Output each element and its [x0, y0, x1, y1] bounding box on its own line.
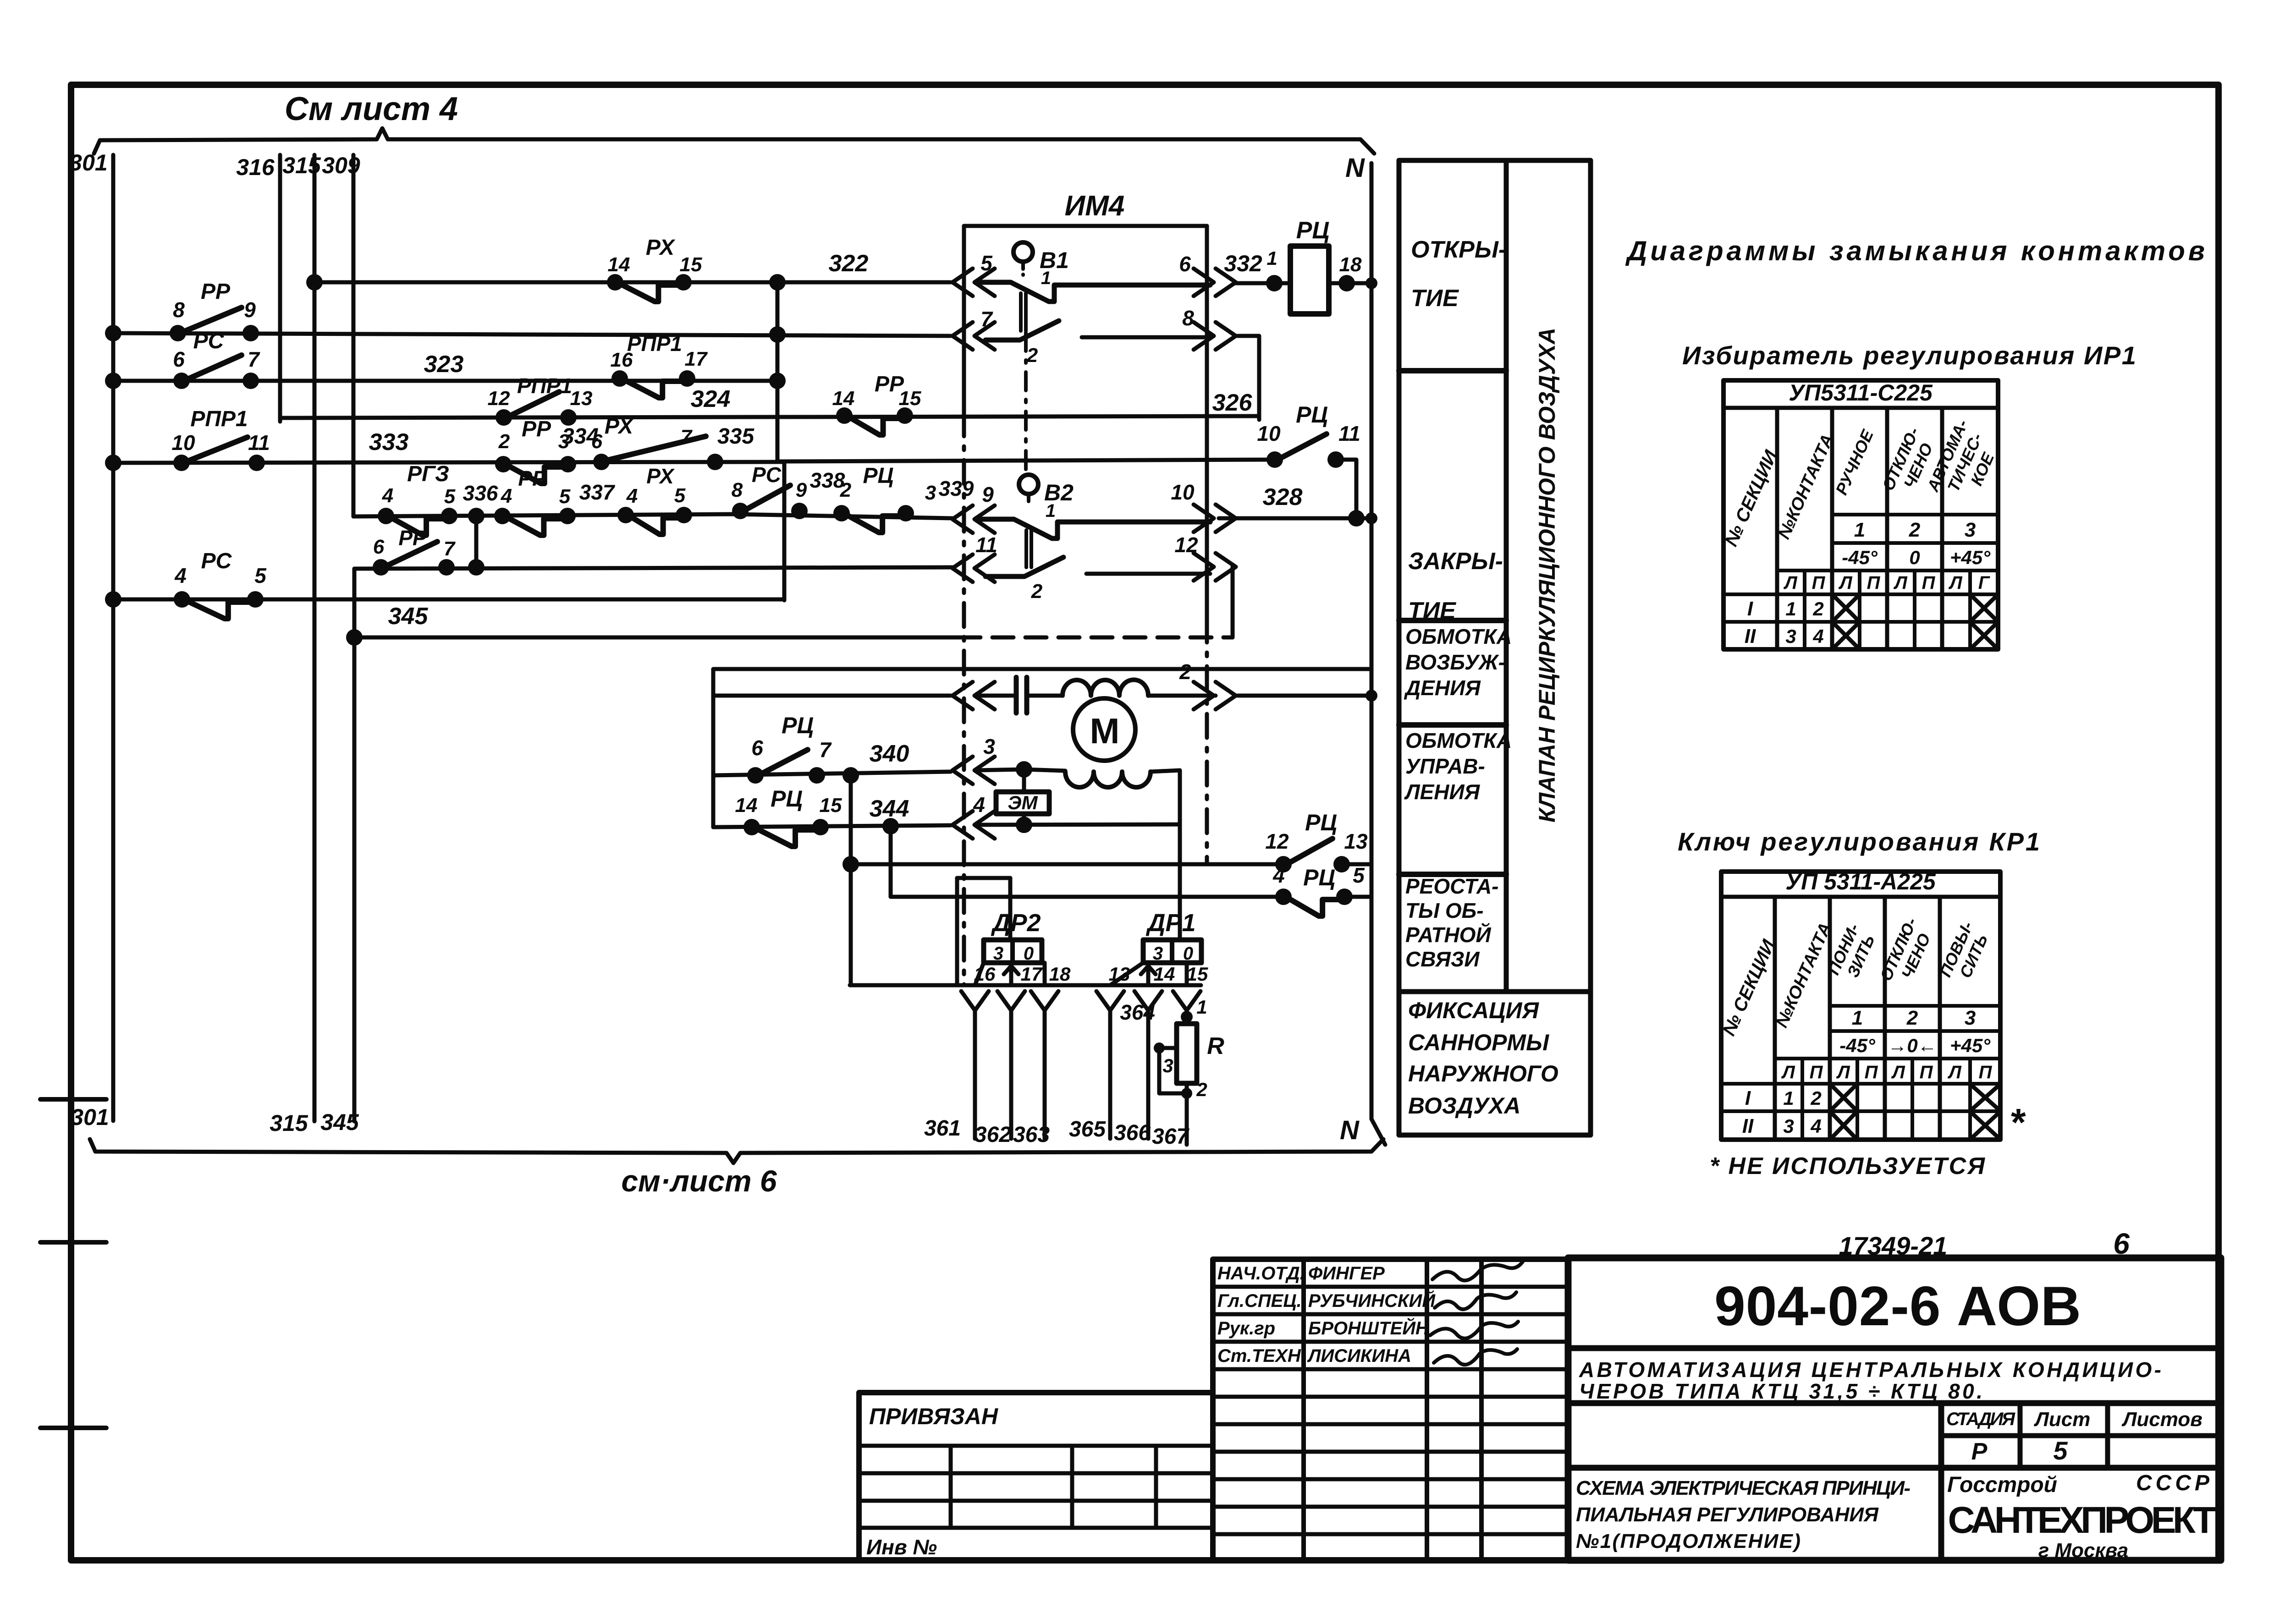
section ОБМОТКА ВОЗБУЖДЕНИЯ	[1399, 625, 1512, 725]
svg-text:5: 5	[674, 484, 686, 507]
see sheet 6 brace (sm list 6)	[90, 1139, 1383, 1198]
contact РХ 4-5	[617, 464, 692, 534]
svg-text:12: 12	[1265, 829, 1289, 853]
svg-text:10: 10	[1171, 480, 1195, 504]
wire 324 from bus 316 through РПР1 12-13 and РР 14-15 to node 326	[280, 386, 1259, 418]
ИМ4 left connector pin 4	[953, 793, 995, 839]
document number 17349-21	[1839, 1231, 1948, 1260]
bus/node 315 vertical	[270, 153, 321, 1136]
key КР1 contact diagram table УП5311-А225	[1719, 869, 2000, 1140]
svg-text:345: 345	[320, 1109, 359, 1135]
svg-text:ВОЗБУЖ-: ВОЗБУЖ-	[1405, 650, 1505, 674]
svg-text:332: 332	[1224, 251, 1262, 276]
svg-text:ТИЕ: ТИЕ	[1411, 285, 1459, 312]
wire 326 vertical from В1 pin 8 down to wire 324	[1212, 336, 1259, 420]
svg-text:2: 2	[1812, 598, 1823, 620]
svg-text:ПИАЛЬНАЯ РЕГУЛИРОВАНИЯ: ПИАЛЬНАЯ РЕГУЛИРОВАНИЯ	[1576, 1503, 1879, 1526]
schema name text	[1576, 1477, 1911, 1553]
resistor R	[1177, 1024, 1224, 1083]
svg-text:3: 3	[1153, 944, 1163, 964]
svg-text:363: 363	[1013, 1123, 1050, 1147]
svg-text:ДР1: ДР1	[1145, 909, 1195, 937]
svg-text:14: 14	[735, 794, 758, 817]
stage/sheet header cells	[1568, 1403, 2221, 1560]
svg-text:РЦ: РЦ	[1296, 217, 1330, 244]
svg-text:4: 4	[1272, 863, 1285, 887]
svg-text:РР: РР	[518, 466, 546, 490]
svg-text:Л: Л	[1836, 1062, 1850, 1082]
wire row to contact РЦ 12-13 and bus N	[851, 862, 1371, 867]
svg-text:Л: Л	[1783, 573, 1798, 593]
svg-text:3: 3	[1965, 1007, 1976, 1029]
svg-text:ОБМОТКА: ОБМОТКА	[1405, 729, 1512, 752]
svg-text:П: П	[1867, 573, 1881, 593]
svg-text:ТЫ ОБ-: ТЫ ОБ-	[1405, 899, 1484, 922]
svg-text:7: 7	[819, 738, 832, 762]
svg-text:*: *	[2010, 1101, 2026, 1144]
svg-text:ЭМ: ЭМ	[1008, 792, 1038, 813]
control winding (ОУ)	[1024, 769, 1180, 825]
contact РЦ 14-15	[735, 786, 842, 846]
asterisk mark near КР1 table	[2010, 1101, 2026, 1144]
svg-text:РХ: РХ	[646, 464, 675, 488]
connector row of feedback circuits	[850, 983, 1201, 988]
svg-text:КЛАПАН РЕЦИРКУЛЯЦИОННОГО ВОЗ: КЛАПАН РЕЦИРКУЛЯЦИОННОГО ВОЗДУХА	[1534, 328, 1560, 823]
contact РХ 14-15 on wire 322	[607, 236, 702, 302]
svg-text:№1(ПРОДОЛЖЕНИЕ): №1(ПРОДОЛЖЕНИЕ)	[1576, 1530, 1800, 1553]
svg-text:340: 340	[870, 741, 909, 767]
svg-text:16: 16	[974, 963, 996, 985]
svg-text:П: П	[1920, 1062, 1933, 1082]
svg-text:15: 15	[820, 794, 842, 817]
svg-text:1: 1	[1196, 996, 1207, 1018]
actuator block ИМ4 outline	[964, 190, 1207, 985]
svg-text:4: 4	[501, 485, 512, 507]
svg-text:326: 326	[1212, 390, 1253, 416]
contact РР 2-3	[495, 417, 599, 483]
svg-text:* НЕ ИСПОЛЬЗУЕТСЯ: * НЕ ИСПОЛЬЗУЕТСЯ	[1710, 1153, 1985, 1180]
svg-text:904-02-6 АОВ: 904-02-6 АОВ	[1714, 1275, 2081, 1337]
svg-text:4: 4	[1810, 1115, 1821, 1137]
svg-text:-45°: -45°	[1839, 1035, 1876, 1056]
ИМ4 left connector pin 9	[953, 483, 995, 533]
svg-text:Л: Л	[1893, 573, 1908, 593]
svg-text:4: 4	[174, 564, 187, 587]
wire row from bus 309: 336/337/338/339 chain to В2 pin 9	[353, 514, 953, 518]
svg-text:ОТКРЫ-: ОТКРЫ-	[1411, 236, 1506, 263]
svg-text:6: 6	[751, 736, 763, 760]
svg-text:НАЧ.ОТД.: НАЧ.ОТД.	[1217, 1263, 1305, 1284]
svg-text:РР: РР	[201, 280, 231, 304]
electromagnet ЭМ	[996, 769, 1049, 833]
svg-text:ОБМОТКА: ОБМОТКА	[1405, 625, 1512, 648]
contact РПР1 10-11	[171, 407, 270, 471]
position sensor ДР1	[1109, 909, 1208, 985]
svg-text:ИМ4: ИМ4	[1065, 190, 1125, 222]
svg-text:333: 333	[369, 429, 409, 455]
contact РР 6-7 bypass branch to В2 pin 11	[354, 508, 953, 576]
ИМ4 left connector pin 5	[953, 251, 995, 296]
svg-text:4: 4	[1812, 625, 1823, 647]
svg-text:Г: Г	[1978, 573, 1991, 593]
ИМ4 left connector pin 7	[953, 307, 995, 350]
svg-text:315: 315	[270, 1110, 308, 1136]
svg-text:5: 5	[2053, 1436, 2068, 1465]
svg-text:11: 11	[975, 533, 997, 557]
svg-text:7: 7	[444, 538, 456, 560]
svg-text:328: 328	[1263, 484, 1303, 510]
svg-text:3: 3	[1785, 625, 1796, 647]
bus/node N (right vertical of ladder)	[1340, 153, 1385, 1145]
svg-text:УПРАВ-: УПРАВ-	[1405, 754, 1485, 778]
limit switch В1 (pins 1-2)	[975, 242, 1210, 367]
svg-text:3: 3	[1965, 519, 1976, 541]
ИМ4 right connector pin 8	[1182, 306, 1236, 350]
heading Диаграммы замыкания контактов	[1625, 236, 2205, 266]
svg-text:УП5311-С225: УП5311-С225	[1789, 380, 1933, 406]
svg-text:14: 14	[608, 253, 630, 276]
svg-text:УП 5311-А225: УП 5311-А225	[1785, 869, 1936, 894]
svg-text:П: П	[1922, 573, 1936, 593]
svg-text:367: 367	[1152, 1125, 1189, 1149]
svg-text:ДЕНИЯ: ДЕНИЯ	[1404, 676, 1481, 700]
svg-text:2: 2	[1196, 1079, 1207, 1100]
svg-text:3: 3	[983, 735, 995, 758]
contact РР 14-15	[832, 372, 921, 435]
svg-text:РС: РС	[752, 463, 782, 487]
svg-text:11: 11	[1338, 422, 1360, 445]
contact РЦ 12-13	[1265, 810, 1368, 872]
svg-text:365: 365	[1069, 1117, 1106, 1141]
svg-text:П: П	[1979, 1062, 1993, 1082]
contact РС 4-5	[174, 549, 267, 619]
svg-text:N: N	[1340, 1115, 1360, 1145]
heading Избиратель регулирования ИР1	[1682, 341, 2136, 370]
svg-text:364: 364	[1120, 1000, 1155, 1024]
project title text	[1568, 1358, 2221, 1403]
wire 344 row with contact РЦ 14-15 to pin 4	[713, 796, 1180, 834]
svg-text:12: 12	[1174, 533, 1198, 557]
wire link from motor section bus to bus N	[713, 669, 1371, 827]
svg-text:8: 8	[173, 298, 185, 322]
svg-text:РПР1: РПР1	[190, 407, 248, 431]
svg-text:1: 1	[1854, 519, 1865, 541]
ИМ4 right connector pin 6	[1179, 252, 1236, 296]
section ОБМОТКА УПРАВЛЕНИЯ	[1399, 729, 1512, 874]
svg-text:366: 366	[1114, 1121, 1151, 1145]
svg-text:РЦ: РЦ	[1303, 865, 1335, 890]
svg-text:315: 315	[282, 153, 321, 178]
svg-text:2: 2	[1810, 1087, 1821, 1109]
svg-text:РЦ: РЦ	[782, 713, 814, 738]
section ЗАКРЫТИЕ	[1399, 548, 1506, 624]
svg-text:Л: Л	[1948, 573, 1963, 593]
ИМ4 right connector pin 12	[1174, 533, 1236, 581]
svg-text:РР: РР	[522, 417, 551, 441]
svg-text:Л: Л	[1947, 1062, 1962, 1082]
svg-text:7: 7	[980, 307, 993, 331]
svg-text:15: 15	[1187, 963, 1208, 985]
svg-text:18: 18	[1339, 253, 1362, 276]
svg-text:Л: Л	[1781, 1062, 1795, 1082]
svg-text:ДР2: ДР2	[991, 909, 1041, 937]
svg-text:2: 2	[1031, 580, 1043, 603]
svg-text:0: 0	[1909, 547, 1920, 568]
svg-text:ТИЕ: ТИЕ	[1408, 598, 1456, 624]
svg-text:11: 11	[248, 431, 270, 455]
svg-text:Инв №: Инв №	[866, 1535, 937, 1559]
svg-text:4: 4	[382, 484, 393, 507]
svg-text:РПР1: РПР1	[517, 374, 572, 398]
position sensor ДР2	[974, 909, 1071, 985]
wire 362 drop with connector arrow	[997, 991, 1025, 1139]
svg-text:345: 345	[388, 603, 429, 630]
svg-text:6: 6	[1179, 252, 1191, 276]
ДР1 top feed wire	[1178, 825, 1182, 940]
contact РПР1 16-17	[611, 332, 708, 398]
wire 340 row with contact РЦ 6-7 to pin 3	[713, 741, 1032, 778]
svg-text:Ст.ТЕХН.: Ст.ТЕХН.	[1217, 1346, 1306, 1366]
contact РС 6-7	[173, 329, 260, 389]
section ФИКСАЦИЯ САННОРМЫ НАРУЖНОГО ВОЗДУХА	[1408, 998, 1558, 1119]
svg-text:П: П	[1865, 1062, 1878, 1082]
svg-text:8: 8	[1182, 306, 1194, 330]
svg-text:РР: РР	[398, 526, 427, 550]
note НЕ ИСПОЛЬЗУЕТСЯ	[1710, 1153, 1985, 1180]
svg-text:13: 13	[1109, 963, 1130, 985]
wire 322 from bus 315 to IM4 pin 5	[306, 250, 951, 291]
svg-text:см·лист 6: см·лист 6	[621, 1164, 777, 1198]
svg-text:3: 3	[1162, 1055, 1173, 1076]
svg-text:15: 15	[680, 253, 702, 276]
contact РГЗ 4-5	[378, 462, 498, 535]
svg-text:12: 12	[488, 387, 510, 410]
title block main outline	[1568, 1258, 2221, 1560]
svg-text:ЗАКРЫ-: ЗАКРЫ-	[1408, 548, 1503, 575]
contact РХ 6-7	[591, 414, 755, 470]
svg-text:301: 301	[69, 150, 107, 176]
svg-text:Гл.СПЕЦ.: Гл.СПЕЦ.	[1217, 1291, 1302, 1311]
svg-text:339: 339	[939, 477, 974, 500]
svg-text:1: 1	[1046, 501, 1056, 521]
svg-text:1: 1	[1852, 1007, 1863, 1029]
staff/signature table	[1213, 1259, 1568, 1560]
svg-text:I: I	[1745, 1087, 1751, 1109]
sheet number 6 (top right of title block)	[2113, 1227, 2130, 1260]
svg-text:316: 316	[236, 154, 275, 180]
selector ИР1 contact diagram table УП5311-С225	[1721, 380, 1998, 649]
contact РЦ 10-11	[1257, 402, 1360, 468]
contact РЦ 6-7	[747, 713, 832, 784]
svg-text:РГЗ: РГЗ	[407, 462, 449, 486]
capacitor and field winding row (ОВ)	[713, 677, 1377, 713]
svg-text:9: 9	[796, 479, 807, 501]
svg-text:Рук.гр: Рук.гр	[1217, 1318, 1275, 1339]
svg-text:→0←: →0←	[1888, 1035, 1937, 1056]
contact РС 8-9 (wire 338)	[732, 463, 845, 519]
ИМ4 left connector pin 11	[953, 533, 997, 582]
svg-text:10: 10	[1257, 422, 1281, 445]
svg-text:3: 3	[993, 944, 1003, 964]
wire from 344 junction down to contact РЦ 4-5	[891, 826, 1371, 897]
mechanical link dash line В1-В2	[1024, 293, 1028, 473]
organization block САНТЕХПРОЕКТ	[1947, 1471, 2216, 1562]
svg-text:3: 3	[925, 482, 936, 504]
wire from РЦ7 junction down to feedback connector row	[842, 767, 859, 985]
svg-text:П: П	[1810, 1062, 1823, 1082]
svg-text:РЦ: РЦ	[863, 464, 893, 488]
valve function table outline	[1399, 160, 1591, 1135]
svg-text:0: 0	[1024, 944, 1034, 964]
ИМ4 right connector pin 10	[1171, 480, 1236, 532]
svg-text:1: 1	[1783, 1087, 1794, 1109]
wire 345 horizontal from node 345	[346, 629, 959, 646]
svg-text:8: 8	[732, 479, 743, 501]
wire 323 from bus 301 through РС 6-7 and РПР1 16-17	[105, 351, 786, 389]
see sheet 4 brace (Sm list 4)	[94, 91, 1374, 154]
svg-text:II: II	[1745, 625, 1756, 647]
svg-text:ЛИСИКИНА: ЛИСИКИНА	[1307, 1346, 1411, 1366]
contact РЦ 4-5	[1272, 863, 1365, 916]
svg-text:9: 9	[982, 483, 994, 506]
wire 366 drop with connector arrow	[1134, 991, 1162, 1139]
feedback rheostat feed wires	[957, 878, 1010, 985]
svg-text:Л: Л	[1891, 1062, 1905, 1082]
svg-text:г Москва: г Москва	[2038, 1539, 2128, 1562]
section РЕОСТАТЫ ОБРАТНОЙ СВЯЗИ	[1405, 874, 1499, 971]
title block code 904-02-6 АОВ	[1568, 1275, 2221, 1348]
svg-text:РУБЧИНСКИЙ: РУБЧИНСКИЙ	[1308, 1289, 1436, 1311]
bus/node 309 vertical	[322, 153, 360, 516]
svg-text:М: М	[1090, 711, 1120, 751]
wire to contact РЦ 10-11 and down to wire 328	[777, 460, 1365, 527]
svg-text:324: 324	[691, 386, 731, 412]
svg-text:2: 2	[1906, 1007, 1918, 1029]
wire 333 from bus 301 through РПР1 10-11, РР 2-3, РХ 6-7	[105, 429, 784, 600]
svg-text:РАТНОЙ: РАТНОЙ	[1405, 923, 1491, 947]
svg-text:N: N	[1345, 153, 1365, 183]
svg-text:НАРУЖНОГО: НАРУЖНОГО	[1408, 1061, 1558, 1086]
svg-text:10: 10	[171, 431, 195, 455]
svg-text:1: 1	[1785, 598, 1796, 620]
svg-text:15: 15	[899, 387, 921, 410]
svg-text:Л: Л	[1838, 573, 1853, 593]
svg-text:6: 6	[173, 347, 185, 371]
svg-text:РХ: РХ	[605, 414, 634, 439]
svg-text:РЦ: РЦ	[1296, 402, 1328, 428]
svg-text:ЛЕНИЯ: ЛЕНИЯ	[1404, 780, 1481, 804]
rotated column label КЛАПАН РЕЦИРКУЛЯЦИОННОГО ВОЗДУХА	[1534, 328, 1560, 823]
resistor tap loop (terminal 3)	[1154, 1042, 1207, 1145]
svg-text:Листов: Листов	[2121, 1408, 2202, 1431]
svg-text:R: R	[1207, 1033, 1224, 1059]
svg-text:7: 7	[248, 347, 260, 371]
svg-text:17: 17	[1021, 963, 1043, 985]
svg-text:7: 7	[681, 426, 693, 448]
wire 361 drop with connector arrow	[961, 991, 989, 1139]
motor М	[1073, 698, 1135, 761]
svg-text:13: 13	[570, 387, 593, 410]
svg-text:ПРИВЯЗАН: ПРИВЯЗАН	[869, 1404, 998, 1429]
heading Ключ регулирования КР1	[1678, 827, 2040, 856]
contact РР 8-9	[170, 280, 259, 341]
svg-text:РС: РС	[193, 329, 225, 353]
svg-text:5: 5	[444, 485, 456, 508]
svg-text:2: 2	[498, 430, 510, 453]
wire from bus 301 through РС 4-5	[105, 591, 784, 630]
svg-text:2: 2	[840, 479, 852, 501]
node 345 vertical drop	[320, 569, 359, 1135]
svg-text:РЕОСТА-: РЕОСТА-	[1405, 874, 1499, 898]
ИМ4 right connector pin 2	[1179, 660, 1236, 709]
svg-text:ФИКСАЦИЯ: ФИКСАЦИЯ	[1408, 998, 1539, 1023]
binding table ПРИВЯЗАН	[859, 1393, 1213, 1560]
bus/node 316 vertical	[236, 154, 280, 422]
svg-text:ВОЗДУХА: ВОЗДУХА	[1408, 1093, 1520, 1119]
wire 365 drop with connector arrow	[1096, 991, 1124, 1139]
svg-text:301: 301	[71, 1104, 109, 1130]
svg-text:П: П	[1812, 573, 1826, 593]
svg-text:13: 13	[1344, 829, 1368, 853]
svg-text:РЦ: РЦ	[1305, 810, 1337, 835]
svg-text:362: 362	[975, 1123, 1011, 1147]
ИМ4 left connector pin 3	[953, 735, 995, 784]
section ОТКРЫТИЕ	[1399, 236, 1506, 371]
svg-text:1: 1	[1041, 268, 1051, 288]
svg-text:РПР1: РПР1	[627, 332, 682, 356]
svg-text:РС: РС	[201, 549, 232, 573]
svg-text:II: II	[1742, 1115, 1754, 1137]
svg-text:+45°: +45°	[1950, 547, 1991, 568]
wire junction vertical joining rows 322/323 and closing circuit	[776, 282, 780, 461]
wire number labels 361..367	[924, 1116, 1189, 1149]
svg-text:309: 309	[322, 153, 360, 178]
svg-text:4: 4	[626, 485, 638, 507]
wire 363 drop with connector arrow	[1031, 991, 1058, 1139]
svg-text:Диаграммы замыкания контакто: Диаграммы замыкания контактов	[1625, 236, 2205, 266]
wire 328 from В2 pin 10 to bus N	[1219, 484, 1377, 524]
svg-text:5: 5	[559, 485, 571, 508]
svg-text:0: 0	[1183, 944, 1193, 964]
svg-text:9: 9	[244, 298, 256, 322]
svg-text:14: 14	[832, 387, 855, 410]
wire 345 dashed continuation inside ИМ4 up to В2 pin 12	[959, 567, 1233, 637]
ИМ4 left connector pin field	[953, 682, 995, 709]
svg-text:18: 18	[1049, 963, 1071, 985]
svg-text:322: 322	[829, 250, 869, 277]
svg-text:337: 337	[579, 480, 616, 504]
wire from bus 301 through РР 8-9 to IM4 pin 7	[105, 325, 951, 343]
svg-text:Лист: Лист	[2034, 1408, 2091, 1431]
svg-text:6: 6	[373, 536, 385, 558]
contact РЦ 2-3 (wire 339)	[833, 464, 974, 532]
svg-text:ФИНГЕР: ФИНГЕР	[1308, 1263, 1385, 1284]
svg-text:3: 3	[1783, 1115, 1794, 1137]
svg-text:СХЕМА ЭЛЕКТРИЧЕСКАЯ ПРИНЦИ-: СХЕМА ЭЛЕКТРИЧЕСКАЯ ПРИНЦИ-	[1576, 1477, 1911, 1499]
svg-text:17: 17	[685, 348, 708, 370]
limit switch В2 (pins 1-2)	[975, 475, 1210, 603]
svg-text:336: 336	[463, 481, 498, 505]
svg-text:323: 323	[424, 351, 464, 378]
svg-text:I: I	[1747, 598, 1753, 620]
svg-text:5: 5	[980, 251, 993, 275]
svg-text:См лист 4: См лист 4	[285, 91, 458, 127]
bus/node 301 (left vertical)	[69, 150, 113, 1130]
svg-text:6: 6	[591, 430, 603, 453]
svg-text:РЦ: РЦ	[771, 786, 803, 812]
svg-text:САНТЕХПРОЕКТ: САНТЕХПРОЕКТ	[1948, 1499, 2216, 1541]
svg-text:САННОРМЫ: САННОРМЫ	[1408, 1030, 1549, 1055]
